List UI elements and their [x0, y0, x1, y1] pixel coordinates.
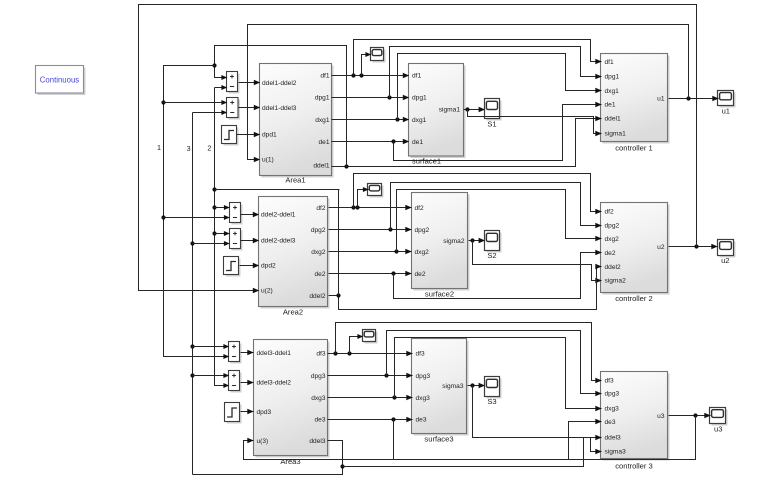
svg-text:dxg1: dxg1 — [412, 117, 427, 124]
svg-text:controller 1: controller 1 — [615, 144, 653, 153]
svg-text:dxg3: dxg3 — [311, 395, 326, 402]
svg-text:df1: df1 — [412, 73, 421, 80]
svg-text:ddel1: ddel1 — [605, 116, 621, 123]
svg-text:dxg2: dxg2 — [311, 249, 326, 256]
svg-text:u1: u1 — [722, 107, 730, 116]
svg-text:dxg1: dxg1 — [605, 88, 620, 95]
svg-text:dxg2: dxg2 — [415, 249, 430, 256]
svg-text:ddel3-ddel1: ddel3-ddel1 — [257, 350, 292, 357]
svg-text:df3: df3 — [605, 377, 614, 384]
svg-text:de3: de3 — [416, 417, 427, 424]
svg-text:Continuous: Continuous — [40, 75, 80, 84]
svg-text:de2: de2 — [415, 271, 426, 278]
svg-text:u1: u1 — [657, 95, 665, 102]
svg-text:df2: df2 — [316, 205, 325, 212]
svg-text:u2: u2 — [657, 244, 665, 251]
svg-text:dxg3: dxg3 — [416, 395, 431, 402]
svg-text:sigma3: sigma3 — [605, 449, 627, 456]
svg-text:3: 3 — [187, 144, 191, 153]
svg-text:ddel2: ddel2 — [309, 293, 325, 300]
svg-text:ddel3-ddel2: ddel3-ddel2 — [257, 379, 292, 386]
svg-text:de2: de2 — [605, 250, 616, 257]
svg-text:u2: u2 — [721, 256, 729, 265]
svg-text:dpg3: dpg3 — [416, 373, 431, 380]
svg-text:sigma1: sigma1 — [605, 130, 627, 137]
svg-text:ddel1-ddel3: ddel1-ddel3 — [262, 105, 297, 112]
svg-text:Area1: Area1 — [285, 176, 305, 185]
svg-text:df2: df2 — [605, 209, 614, 216]
svg-text:dpg2: dpg2 — [605, 222, 620, 229]
svg-text:u(3): u(3) — [257, 438, 269, 445]
svg-text:sigma1: sigma1 — [439, 107, 461, 114]
svg-text:de3: de3 — [314, 417, 325, 424]
svg-text:u(1): u(1) — [262, 157, 274, 164]
svg-text:dpg1: dpg1 — [412, 95, 427, 102]
svg-text:Area3: Area3 — [280, 457, 300, 466]
svg-text:Area2: Area2 — [283, 308, 303, 317]
svg-text:controller 2: controller 2 — [615, 294, 653, 303]
svg-text:dpg1: dpg1 — [315, 95, 330, 102]
svg-text:dxg2: dxg2 — [605, 236, 620, 243]
svg-text:ddel3: ddel3 — [309, 438, 325, 445]
svg-text:u(2): u(2) — [261, 288, 273, 295]
svg-text:ddel3: ddel3 — [605, 435, 621, 442]
svg-text:1: 1 — [157, 143, 161, 152]
svg-text:df2: df2 — [415, 205, 424, 212]
svg-text:ddel2: ddel2 — [605, 264, 621, 271]
svg-text:dpg2: dpg2 — [311, 227, 326, 234]
svg-text:dpd3: dpd3 — [257, 409, 272, 416]
svg-text:de1: de1 — [412, 139, 423, 146]
svg-text:dpg2: dpg2 — [415, 227, 430, 234]
svg-text:de2: de2 — [314, 271, 325, 278]
svg-text:df3: df3 — [416, 351, 425, 358]
svg-text:u3: u3 — [714, 425, 722, 434]
svg-text:sigma3: sigma3 — [442, 383, 464, 390]
svg-text:df1: df1 — [605, 59, 614, 66]
svg-text:ddel2-ddel3: ddel2-ddel3 — [261, 237, 296, 244]
svg-text:ddel2-ddel1: ddel2-ddel1 — [261, 212, 296, 219]
svg-text:ddel1: ddel1 — [313, 163, 329, 170]
svg-text:sigma2: sigma2 — [443, 238, 465, 245]
svg-text:dpg3: dpg3 — [311, 373, 326, 380]
svg-text:u3: u3 — [657, 413, 665, 420]
svg-text:S2: S2 — [487, 251, 496, 260]
svg-text:S1: S1 — [487, 120, 496, 129]
svg-text:dxg1: dxg1 — [315, 117, 330, 124]
svg-text:surface3: surface3 — [424, 435, 453, 444]
svg-text:sigma2: sigma2 — [605, 278, 627, 285]
svg-text:de3: de3 — [605, 419, 616, 426]
svg-text:ddel1-ddel2: ddel1-ddel2 — [262, 80, 297, 87]
svg-text:dpg1: dpg1 — [605, 74, 620, 81]
svg-text:S3: S3 — [487, 397, 496, 406]
svg-text:dpd1: dpd1 — [262, 131, 277, 138]
svg-text:dxg3: dxg3 — [605, 406, 620, 413]
svg-text:df3: df3 — [316, 351, 325, 358]
svg-text:dpd2: dpd2 — [261, 263, 276, 270]
svg-text:surface2: surface2 — [425, 290, 454, 299]
svg-text:dpg3: dpg3 — [605, 391, 620, 398]
svg-text:df1: df1 — [320, 73, 329, 80]
svg-text:de1: de1 — [318, 139, 329, 146]
svg-text:2: 2 — [207, 144, 211, 153]
svg-text:de1: de1 — [605, 102, 616, 109]
svg-text:controller 3: controller 3 — [615, 462, 653, 471]
